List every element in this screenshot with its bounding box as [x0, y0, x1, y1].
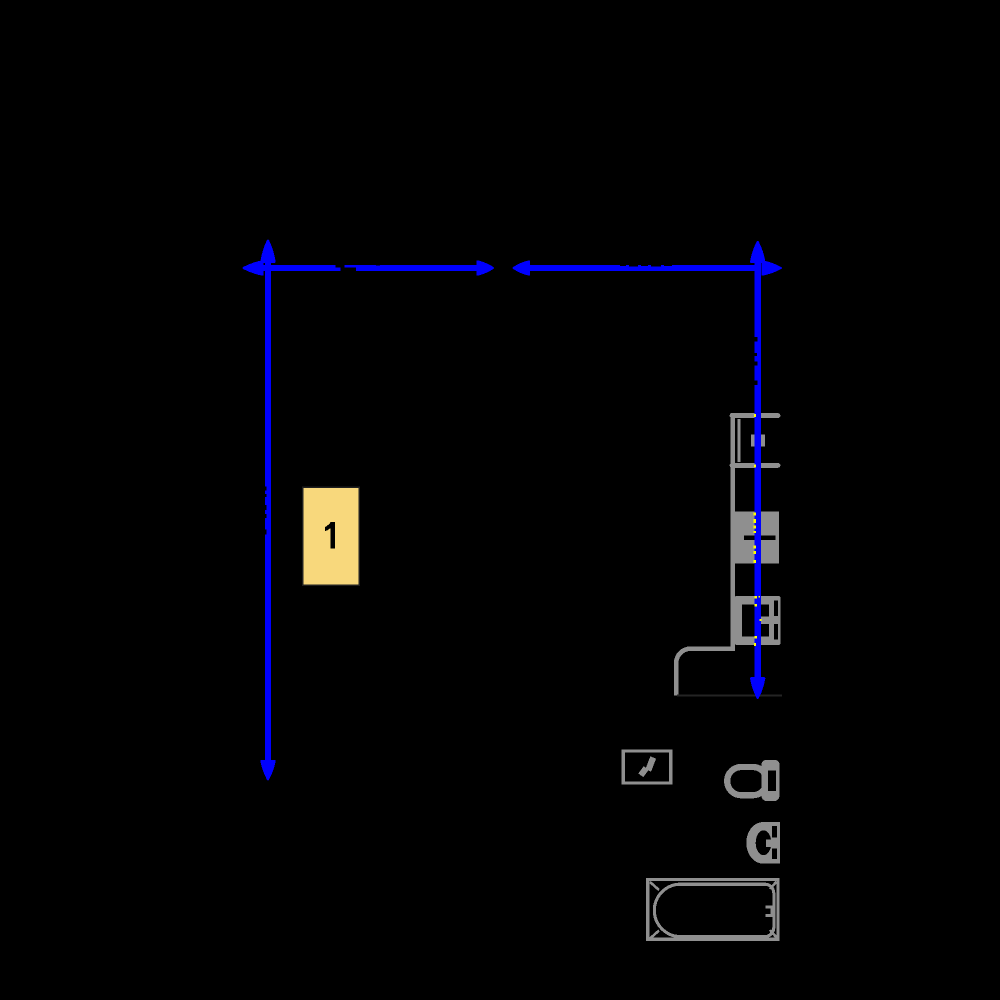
- yellow selection dashes on blue line: [754, 414, 762, 646]
- toilet tank: [762, 760, 780, 801]
- room label box 1: [303, 487, 360, 585]
- wash basin: [746, 822, 780, 864]
- shower box: [623, 751, 671, 783]
- faint floor line: [677, 695, 782, 697]
- bathtub outer: [648, 880, 778, 940]
- blue dimension: horizontal shaft right segment: [529, 265, 761, 271]
- bathtub tap: [766, 905, 775, 917]
- bathtub corner diagonals: [650, 882, 659, 890]
- left vertical up arrow: [261, 241, 274, 262]
- stove block: [735, 512, 780, 564]
- blue dimension: horizontal shaft left segment: [248, 265, 478, 271]
- mid right arrow: [478, 261, 493, 274]
- right end arrow: [762, 261, 780, 274]
- washer unit: [735, 596, 781, 645]
- kitchen sink unit bottom bar: [732, 463, 778, 468]
- shower icon: [648, 758, 653, 771]
- bathtub inner: [654, 884, 773, 936]
- wall / counter edge line (gray, with quarter-arc corner): [676, 413, 732, 696]
- blue dimension: left vertical shaft: [265, 258, 271, 761]
- toilet bowl: [727, 767, 767, 795]
- blue dimension: right vertical shaft: [755, 258, 761, 679]
- room label text 1 (drawn as path, Arial-style footless one): [325, 522, 335, 549]
- kitchen sink unit top bar: [732, 413, 778, 418]
- left end arrow: [244, 261, 263, 274]
- right vertical up arrow: [751, 242, 764, 262]
- kitchen sink unit inner line: [737, 419, 740, 462]
- left vertical down arrow: [261, 761, 274, 779]
- stove handle: [744, 536, 776, 540]
- right vertical down arrow: [751, 678, 764, 698]
- kitchen sink faucet squares: [751, 434, 757, 446]
- mid left arrow: [514, 261, 529, 274]
- black dimension-text notches over blue lines: [265, 264, 758, 534]
